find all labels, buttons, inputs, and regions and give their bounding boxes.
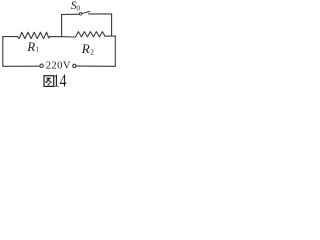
- label figure caption 图14 : hanzi drawn as vector: [44, 76, 54, 87]
- wire switch branch right: [89, 13, 112, 15]
- wire switch branch left: [62, 13, 80, 15]
- svg-text:2: 2: [90, 47, 94, 56]
- wire top-left horizontal: [3, 36, 18, 38]
- svg-text:R: R: [26, 39, 35, 54]
- wire left vertical: [2, 37, 4, 67]
- svg-text:1: 1: [36, 46, 40, 54]
- terminal right circle: [73, 64, 76, 67]
- switch S0 contact circle: [79, 13, 82, 16]
- svg-text:14: 14: [53, 70, 67, 89]
- wire bottom right segment: [76, 65, 115, 67]
- resistor R2: [76, 32, 106, 37]
- svg-text:0: 0: [76, 3, 80, 12]
- wire bottom left segment: [3, 65, 40, 67]
- wire middle horizontal (R1 to R2): [50, 36, 76, 38]
- switch S0 lever: [82, 11, 90, 13]
- wire R2 to right corner: [105, 35, 115, 37]
- terminal left circle: [40, 64, 43, 67]
- svg-text:R: R: [81, 41, 90, 56]
- resistor R1: [18, 32, 50, 38]
- wire switch right vertical drop: [111, 14, 113, 36]
- wire junction vertical to switch branch: [61, 15, 63, 37]
- wire right vertical: [114, 36, 116, 66]
